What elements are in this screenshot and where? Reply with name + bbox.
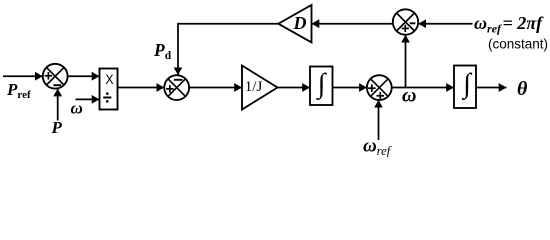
- svg-text:X: X: [105, 71, 113, 87]
- svg-text:D: D: [293, 13, 307, 33]
- block: integrator 1: [310, 67, 333, 106]
- svg-text:ω: ω: [402, 85, 416, 107]
- wire: P_ref input into summing junction S1: [3, 75, 43, 77]
- minus sign S1 bottom input: [53, 84, 61, 86]
- wire: S4 output to gain D: [312, 23, 393, 25]
- summing junction S1: [43, 64, 68, 89]
- wire: P feedback up into S1: [57, 89, 59, 121]
- gain block 1/J (triangle): [242, 66, 278, 110]
- summing junction S4: [393, 9, 418, 34]
- wire: integrator 2 output θ: [476, 87, 507, 89]
- svg-text:(constant): (constant): [488, 37, 548, 52]
- summing junction S2: [164, 75, 189, 100]
- gain block D (triangle): [278, 5, 311, 42]
- block: integrator 2: [454, 66, 476, 109]
- wire: S2 output to gain 1/J: [189, 87, 242, 89]
- label ÷ (divide): [103, 92, 111, 103]
- svg-text:ωref = 2πf: ωref = 2πf: [474, 13, 544, 36]
- wire: ω branch up into S4: [405, 35, 407, 88]
- wire: ω_ref up into S3: [378, 100, 380, 140]
- minus sign S2 top input: [174, 79, 183, 81]
- plus sign S1 left input: [45, 72, 53, 80]
- wire: integrator 1 output to summing junction S3: [333, 87, 367, 89]
- wire: ω_ref constant into S4 from right: [418, 23, 472, 25]
- plus sign S4 bottom input: [402, 25, 409, 32]
- svg-text:θ: θ: [517, 78, 528, 100]
- wire: 1/J output to integrator 1: [278, 87, 311, 89]
- plus sign S3 bottom input: [377, 92, 385, 100]
- wire: damping feedback from D down into S2: [178, 24, 278, 75]
- svg-text:ω: ω: [71, 99, 83, 118]
- wire: ω into divide input of divider block: [76, 98, 100, 100]
- svg-text:Pd: Pd: [153, 40, 172, 62]
- wire: divider output to summing junction S2: [118, 87, 165, 89]
- wire: S3 output to integrator 2 (ω node): [392, 87, 454, 89]
- svg-text:P: P: [51, 118, 63, 137]
- block: multiply-divide (x / ÷): [100, 69, 118, 110]
- svg-text:1/J: 1/J: [245, 79, 263, 95]
- summing junction S3: [367, 75, 392, 100]
- svg-text:Pref: Pref: [6, 80, 31, 101]
- plus sign S3 left input: [368, 84, 376, 92]
- svg-text:ωref: ωref: [363, 136, 392, 158]
- wire: S1 output to multiply input of divider block: [68, 75, 100, 77]
- minus sign S4 right input: [410, 22, 416, 24]
- plus sign S2 left input: [166, 85, 174, 93]
